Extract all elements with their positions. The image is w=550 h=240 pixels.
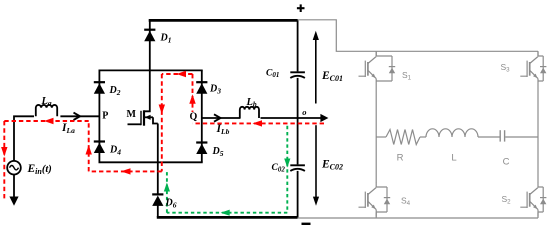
wire R to L xyxy=(420,136,426,138)
wire Lb to node o arrow xyxy=(261,117,322,119)
wire red far-left vertical xyxy=(3,121,5,201)
capacitor C xyxy=(499,130,501,141)
capacitor C02 xyxy=(290,165,305,171)
gray inverter sub-circuit xyxy=(296,20,538,218)
voltage arrow E_C02 xyxy=(313,125,319,206)
plus terminal xyxy=(297,4,305,12)
wire gray left branch upper xyxy=(375,51,377,56)
wire red long horizontal to o xyxy=(193,122,325,124)
inductor L xyxy=(426,129,478,137)
ground arrow below source xyxy=(9,197,18,206)
wire red top-left horizontal xyxy=(4,120,88,122)
wire capacitor branch middle xyxy=(297,78,299,164)
transistor M (MOSFET) xyxy=(128,70,158,125)
wire green D6 vertical xyxy=(166,170,168,213)
wire S4 emitter to bottom rail xyxy=(375,213,377,219)
wire bridge right leg xyxy=(201,70,203,162)
voltage arrow E_C01 xyxy=(313,31,319,104)
wire gray top rail xyxy=(296,20,538,52)
wire red below-bridge horizontal xyxy=(89,170,162,172)
wire left branch to S4 xyxy=(375,137,377,183)
minus terminal xyxy=(302,223,311,225)
I_Lb current arrow xyxy=(214,114,221,121)
wire Q to Lb xyxy=(202,117,241,119)
svg-text:C: C xyxy=(503,157,510,168)
svg-text:Q: Q xyxy=(190,112,198,123)
wire S2 emitter to bottom rail xyxy=(537,213,539,219)
wire gray right branch upper xyxy=(537,51,539,56)
wire capacitor branch lower xyxy=(297,171,299,218)
wire red top-bridge horizontal xyxy=(162,73,193,75)
arrow red up on Q-leg xyxy=(189,94,195,104)
black main circuit xyxy=(7,20,321,217)
arrow red left on top-left segment xyxy=(44,118,54,124)
wire red P-leg vertical xyxy=(88,121,90,171)
green current path xyxy=(167,126,287,213)
arrow green down at C02 xyxy=(284,159,290,168)
wire La to P xyxy=(60,115,99,117)
transistor S3 xyxy=(520,51,546,85)
wire bottom rail xyxy=(157,216,298,219)
wire source up to corner and La xyxy=(14,116,34,161)
diode D6 xyxy=(152,194,163,206)
diode D1 xyxy=(144,30,155,42)
arrow green left on bottom xyxy=(221,210,230,216)
transistor S2 xyxy=(520,182,546,216)
node o output arrow xyxy=(320,114,328,122)
inductor Lb xyxy=(240,107,259,118)
wire source bottom lead xyxy=(13,175,15,198)
sine wave inside source xyxy=(10,166,19,170)
diode D4 xyxy=(94,142,105,154)
diode D3 xyxy=(196,82,207,94)
red current path xyxy=(4,74,324,201)
arrow red down on far-left vertical xyxy=(1,147,7,157)
wire L to C xyxy=(478,136,500,138)
svg-text:L: L xyxy=(451,153,456,164)
wire S3 emitter to mid-rail xyxy=(537,86,539,138)
arrow red up on P-leg xyxy=(86,145,92,155)
wire S1 emitter to mid-rail xyxy=(375,86,377,138)
svg-text:o: o xyxy=(302,107,306,117)
capacitor C01 xyxy=(290,72,305,78)
M source arrow xyxy=(145,115,151,120)
diode D2 xyxy=(94,82,105,94)
I_La current arrow xyxy=(74,113,81,120)
wire capacitor branch upper xyxy=(297,20,299,71)
svg-text:R: R xyxy=(397,153,404,164)
wire D6 to bottom rail xyxy=(157,205,159,218)
arrow red left below bridge xyxy=(121,168,131,174)
wire bridge left leg xyxy=(98,70,100,162)
arrow red down on M vertical xyxy=(159,105,165,115)
wire bridge top xyxy=(99,69,203,71)
wire top rail xyxy=(149,19,298,22)
wire D1 branch vertical xyxy=(149,20,151,70)
AC source E_in(t) circle xyxy=(7,161,21,175)
arrow red left on long horizontal xyxy=(253,120,263,126)
resistor R xyxy=(386,130,420,145)
wire C to right branch xyxy=(505,136,538,138)
wire green C02 vertical xyxy=(286,126,288,213)
inductor La xyxy=(36,105,57,116)
transistor S1 xyxy=(359,51,396,85)
svg-text:M: M xyxy=(127,109,137,120)
svg-text:P: P xyxy=(102,111,108,122)
wire green bottom horizontal xyxy=(167,212,287,214)
wire right branch to S2 xyxy=(537,137,539,183)
wire M source down to D6 xyxy=(157,124,159,195)
wire gray bottom rail xyxy=(298,217,538,219)
wire red M vertical xyxy=(161,74,163,171)
wire mid-rail left stub xyxy=(376,136,386,138)
wire bridge bottom xyxy=(99,161,203,163)
arrow green up at D6 xyxy=(164,183,170,192)
wire red Q-leg vertical xyxy=(192,74,194,112)
transistor S4 xyxy=(359,182,391,216)
diode D5 xyxy=(196,143,207,155)
arrow red left on top-bridge xyxy=(177,71,187,77)
